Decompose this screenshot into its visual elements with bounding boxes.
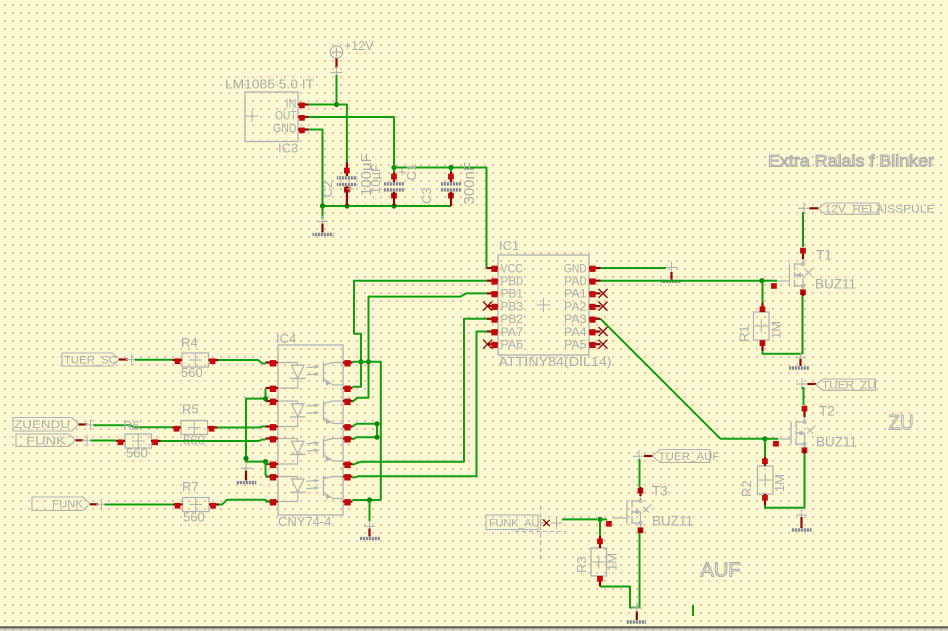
wire R5 to ch2K: [218, 427, 266, 428]
label T2: [819, 404, 835, 419]
capacitor C3: [441, 172, 462, 206]
node gnd bus 1: [320, 203, 325, 208]
svg-text:R5: R5: [182, 402, 199, 417]
node T3 gate: [597, 517, 602, 522]
svg-text:R4: R4: [181, 335, 198, 350]
wire T2 source down: [804, 454, 806, 508]
airwire X FUNK_AUF: [543, 517, 562, 529]
ground bus: [323, 205, 452, 207]
window border bottom: [0, 626, 948, 631]
svg-text:ZU: ZU: [889, 411, 914, 435]
wire branch ch3K: [266, 462, 269, 465]
label BUZ11 T2: [816, 435, 857, 450]
svg-text:1M: 1M: [605, 553, 620, 571]
nc pin X PA5: [599, 340, 608, 349]
wire ch1C row: [353, 362, 381, 500]
wire T2 gate: [765, 438, 778, 440]
label ATTINY84(DIL14): [499, 354, 612, 369]
wire OUT net: [309, 117, 395, 162]
label BUZ11 T3: [652, 514, 693, 529]
IC U1 ATTINY84: [487, 255, 601, 355]
ground T1: [789, 352, 809, 369]
pin T2 gate: [773, 441, 779, 447]
resistor R1: [754, 303, 770, 352]
label R1: [737, 325, 752, 342]
ground regulator: [313, 216, 334, 236]
ground IC1: [661, 262, 681, 284]
wire T1 source down: [802, 296, 804, 354]
svg-text:R6: R6: [123, 418, 140, 433]
node ch1K corner: [263, 396, 268, 401]
node gnd bus 2: [344, 203, 349, 208]
node +12V junction: [334, 102, 339, 107]
label R7: [182, 479, 199, 494]
label IC1: [499, 238, 519, 253]
wire TUER_ZU to T2 drain: [802, 388, 804, 405]
wire FUNK_AUF to T3 gate: [562, 518, 597, 520]
wire PA0 to gate: [762, 280, 777, 282]
svg-text:12V_RELAISSPULE: 12V_RELAISSPULE: [825, 203, 935, 215]
wire +12V vertical: [336, 75, 338, 105]
svg-text:FUNK: FUNK: [26, 435, 67, 447]
svg-text:300nF: 300nF: [461, 162, 478, 205]
wire R3 bottom path: [600, 587, 640, 608]
capacitor C1: [384, 162, 406, 206]
svg-text:1M: 1M: [772, 474, 787, 492]
svg-text:FUNK_AUF: FUNK_AUF: [489, 517, 546, 529]
svg-text:LM1085 5.0 IT: LM1085 5.0 IT: [225, 77, 314, 92]
svg-text:BUZ11: BUZ11: [652, 514, 693, 529]
svg-text:R7: R7: [182, 479, 199, 494]
label C2: [320, 181, 335, 198]
svg-text:R2: R2: [739, 480, 754, 497]
svg-text:560: 560: [183, 510, 205, 525]
ground T2: [792, 510, 812, 532]
wire T2 gate-R2: [764, 439, 766, 457]
wire T3 source down: [639, 533, 641, 608]
ground opto-LED: [236, 463, 256, 485]
wire R2 bottom to T2 source: [765, 506, 805, 508]
flag ZUENDU: [13, 418, 96, 432]
wire PB2 net: [353, 319, 488, 465]
svg-text:AUF: AUF: [701, 560, 741, 582]
wire R4 to ch1A: [219, 360, 266, 364]
value 1M R2: [772, 474, 787, 492]
svg-text:IC1: IC1: [499, 238, 519, 253]
label T3: [652, 484, 668, 499]
svg-text:C3: C3: [419, 187, 434, 204]
wire cap bus to IC1 VCC: [394, 168, 488, 269]
svg-text:C1: C1: [404, 164, 419, 181]
label ZU: [889, 411, 914, 435]
wire ch4E row: [353, 499, 381, 501]
wire T3 gate: [600, 518, 607, 520]
node ch3C: [374, 435, 379, 440]
wire TUER_SC to R4: [135, 359, 173, 361]
svg-text:TUER_ZU: TUER_ZU: [822, 379, 876, 391]
wire junction to C2 top: [337, 105, 347, 163]
label +12V: [344, 39, 374, 53]
svg-text:GND: GND: [273, 121, 297, 135]
node C1 top: [391, 165, 396, 170]
resistor R2: [758, 457, 774, 506]
nc pin X PA2: [599, 302, 608, 311]
nc pin X PA6: [483, 340, 492, 349]
flag FUNK2: [32, 497, 107, 511]
value 1M R3: [605, 553, 620, 571]
svg-text:TUER_AUF: TUER_AUF: [659, 451, 720, 463]
node gnd bus 3: [391, 203, 396, 208]
svg-text:CNY74-4: CNY74-4: [278, 514, 331, 529]
svg-text:C2: C2: [320, 181, 335, 198]
wire ZUENDU to R5: [94, 425, 173, 427]
svg-text:560: 560: [126, 446, 148, 461]
svg-text:T3: T3: [652, 484, 668, 499]
value 10uF ghost: [368, 164, 383, 194]
value 560 R4: [181, 365, 203, 380]
dashed marker horizontal: [515, 531, 566, 533]
label C3: [419, 187, 434, 204]
wire FUNK2 to R7: [105, 504, 174, 506]
node ch2E: [374, 421, 379, 426]
wire T3 gate-R3: [599, 519, 601, 536]
dashed marker vertical: [540, 506, 542, 560]
wire PA3 net diagonal: [601, 319, 766, 439]
transistor T3: [613, 487, 652, 533]
label R3: [574, 556, 589, 573]
svg-text:1M: 1M: [769, 321, 784, 339]
label R6: [123, 418, 140, 433]
node T1 gate: [759, 278, 764, 283]
stub wire: [692, 605, 694, 616]
resistor R6: [116, 434, 161, 448]
label R4: [181, 335, 198, 350]
wire IC1 GND: [601, 267, 667, 269]
flag 12V_RELAISSPULE: [798, 202, 935, 215]
svg-text:PA6: PA6: [501, 338, 524, 352]
label Extra Ralais f Blinker: [768, 153, 935, 171]
flag FUNK_AUF: [486, 515, 546, 530]
wire R1 bottom to T1 source: [763, 351, 803, 354]
value 1M R1: [769, 321, 784, 339]
capacitor C2: [337, 162, 358, 206]
node C3 top: [448, 165, 453, 170]
label AUF: [701, 560, 741, 582]
svg-text:TUER_SC: TUER_SC: [64, 354, 117, 366]
wire R6 to ch3A: [161, 440, 266, 442]
wire T1 gate-R1: [761, 281, 764, 303]
svg-text:10µF: 10µF: [368, 164, 383, 194]
resistor R3: [591, 536, 607, 587]
wire PB1 net: [353, 293, 488, 401]
svg-text:T1: T1: [816, 248, 832, 263]
nc pin X PB3: [483, 302, 492, 311]
svg-text:R3: R3: [574, 556, 589, 573]
svg-text:BUZ11: BUZ11: [816, 435, 857, 450]
value 100uF: [358, 153, 375, 196]
ground opto-transistor: [360, 521, 380, 540]
flag TUER_SC: [62, 353, 137, 366]
resistor R5: [173, 421, 218, 435]
label BUZ11 T1: [815, 277, 856, 292]
optocoupler IC4: [266, 345, 353, 515]
flag TUER_AUF: [633, 450, 720, 464]
wire IC3 GND down: [309, 130, 323, 207]
wire IN to junction: [308, 104, 337, 106]
value 300nF: [461, 162, 478, 205]
node PB1-ch1C: [366, 359, 371, 364]
svg-text:BUZ11: BUZ11: [815, 277, 856, 292]
wire branch ch4A: [266, 462, 269, 478]
transistor T1: [775, 248, 814, 296]
wire PB0 net: [353, 281, 488, 387]
wire C3 top branch: [450, 168, 452, 173]
svg-text:IC3: IC3: [278, 141, 298, 156]
node ch4E: [367, 497, 372, 502]
svg-text:FUNK: FUNK: [52, 499, 84, 511]
label IC3: [278, 141, 298, 156]
node gnd rail: [243, 456, 248, 461]
node T2 gate: [762, 436, 767, 441]
label R2: [739, 480, 754, 497]
label IC4: [276, 331, 296, 346]
flag FUNK1: [16, 434, 93, 447]
svg-text:+12V: +12V: [344, 39, 374, 53]
label LM1085 5.0 IT: [225, 77, 314, 92]
pin T3 gate: [606, 521, 612, 527]
wire ch1K to gnd rail: [246, 389, 266, 462]
svg-text:ZUENDU: ZUENDU: [14, 419, 70, 431]
label R5: [182, 402, 199, 417]
wire FUNK1 to R6: [91, 440, 117, 442]
ground T3: [626, 603, 646, 624]
svg-text:R1: R1: [737, 325, 752, 342]
wire 12V flag to T1 drain: [803, 213, 804, 247]
svg-text:ATTINY84(DIL14): ATTINY84(DIL14): [499, 354, 612, 369]
wire TUER_AUF to T3 drain: [639, 459, 641, 487]
+12V supply symbol: [330, 46, 342, 79]
svg-text:T2: T2: [819, 404, 835, 419]
svg-text:560: 560: [181, 365, 203, 380]
value 560 R6: [126, 446, 148, 461]
label CNY74-4: [278, 514, 331, 529]
resistor R7: [173, 498, 219, 512]
resistor R4: [173, 353, 219, 367]
pin T1 gate: [771, 283, 777, 289]
wire ch2E-ch3C: [353, 424, 378, 440]
wire gnd stub: [322, 206, 324, 219]
svg-text:IC4: IC4: [276, 331, 296, 346]
label C1: [404, 164, 419, 181]
nc pin X PA4: [599, 327, 608, 336]
svg-text:Extra Ralais f Blinker: Extra Ralais f Blinker: [768, 153, 935, 171]
value 560 R5: [183, 433, 205, 448]
flag TUER_ZU: [796, 378, 876, 391]
wire PA0 net: [601, 280, 763, 282]
nc pin X PA1: [599, 289, 608, 298]
wire ch4E to ground: [369, 500, 371, 522]
svg-text:PA5: PA5: [564, 338, 587, 352]
wire PA7 net: [353, 332, 488, 478]
wire R7 to ch4K: [219, 500, 269, 505]
node PB0-ch1C: [358, 359, 363, 364]
label T1: [816, 248, 832, 263]
transistor T2: [777, 406, 816, 454]
value 560 R7: [183, 510, 205, 525]
node ch3K branch: [263, 459, 268, 464]
voltage regulator IC3: [245, 92, 309, 142]
